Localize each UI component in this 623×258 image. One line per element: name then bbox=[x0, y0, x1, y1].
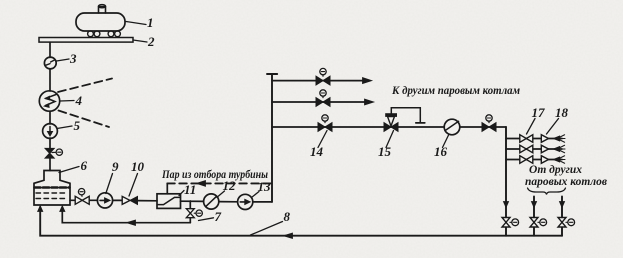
branch A pipe bbox=[272, 80, 369, 82]
control valve 15 bbox=[384, 123, 391, 132]
brace under text bbox=[528, 188, 566, 195]
gauge on outlet valve bbox=[81, 195, 83, 196]
valve before comb bbox=[482, 123, 489, 132]
down arrows bbox=[503, 202, 508, 208]
svg-text:9: 9 bbox=[112, 159, 119, 174]
label 14 leader bbox=[318, 131, 327, 148]
gauge on valve 7 bbox=[194, 212, 196, 214]
heat exchanger 11 bbox=[157, 194, 181, 209]
drain valve 7 bbox=[186, 209, 194, 214]
gauge on valve 14 bbox=[324, 121, 326, 122]
tank car 1 body bbox=[76, 13, 125, 31]
svg-text:4: 4 bbox=[75, 93, 83, 108]
branch B pipe bbox=[272, 101, 371, 103]
svg-text:11: 11 bbox=[184, 182, 196, 197]
right vertical main bbox=[505, 127, 507, 236]
valve above tank 6 bbox=[45, 149, 54, 159]
tank 6 liquid bbox=[35, 186, 70, 189]
valve 15 actuator bbox=[388, 117, 395, 127]
drain stub to valve 7 bbox=[189, 201, 191, 223]
drain return line bbox=[62, 207, 190, 223]
tank car wheels bbox=[88, 31, 94, 37]
comb branch 1 bbox=[506, 138, 562, 140]
svg-text:Пар из отбора турбины: Пар из отбора турбины bbox=[161, 169, 268, 181]
label 17 leader bbox=[527, 119, 536, 135]
pump 9 bbox=[97, 193, 112, 208]
pipe 3 to heater 4 bbox=[49, 69, 51, 91]
tank 6 bbox=[34, 171, 70, 206]
branch A arrow bbox=[363, 78, 372, 84]
pipe pump to check valve bbox=[113, 199, 122, 201]
pipe check valve to exchanger 11 bbox=[138, 200, 158, 202]
branch B arrow bbox=[365, 99, 374, 105]
heater 4 bbox=[39, 91, 59, 111]
branch B gauge bbox=[322, 96, 324, 97]
line 8 flow arrow bbox=[284, 233, 293, 238]
outlet valve bbox=[75, 196, 82, 204]
label 8 leader bbox=[251, 222, 283, 236]
return line 8 bbox=[40, 207, 562, 236]
comb branch 2 bbox=[506, 148, 562, 150]
main steam header bbox=[272, 126, 506, 128]
label 2 leader bbox=[133, 40, 147, 42]
incoming vertical 3 bbox=[561, 197, 563, 236]
svg-text:14: 14 bbox=[310, 144, 324, 159]
steam pipe to exchanger bbox=[166, 183, 168, 193]
platform 2 bbox=[39, 38, 133, 43]
label 4 leader bbox=[60, 100, 74, 103]
svg-text:5: 5 bbox=[74, 118, 81, 133]
gauge on valve bbox=[52, 151, 56, 153]
label 6 leader bbox=[59, 167, 79, 173]
label 7 leader bbox=[199, 218, 214, 221]
meter 5 bbox=[43, 124, 58, 139]
steam arrow bbox=[197, 181, 206, 187]
heater 4 steam dashed rays bbox=[58, 79, 112, 93]
riser top cap bbox=[267, 73, 277, 75]
label 5 leader bbox=[57, 126, 72, 129]
riser bbox=[271, 74, 273, 202]
svg-text:8: 8 bbox=[284, 209, 291, 224]
svg-text:2: 2 bbox=[147, 34, 155, 49]
svg-text:От других: От других bbox=[529, 164, 582, 176]
flow meter 16 bbox=[444, 119, 460, 135]
svg-text:18: 18 bbox=[555, 105, 569, 120]
svg-text:16: 16 bbox=[434, 144, 448, 159]
branch B valve bbox=[316, 98, 323, 107]
pipe platform to meter 3 bbox=[49, 42, 51, 57]
pipe 4 to meter 5 bbox=[49, 111, 51, 124]
incoming vertical 2 bbox=[533, 197, 535, 236]
label 18 leader bbox=[547, 119, 559, 135]
svg-text:3: 3 bbox=[69, 51, 77, 66]
comb valves and check valves bbox=[520, 135, 549, 164]
branch A valve bbox=[316, 76, 323, 85]
valve 14 bbox=[318, 123, 325, 132]
label 9 leader bbox=[106, 174, 113, 194]
pipe 12 to pump 13 bbox=[219, 201, 238, 203]
gauge on valve bbox=[488, 121, 490, 122]
tank outlet pipe bbox=[70, 199, 98, 201]
svg-text:6: 6 bbox=[81, 158, 88, 173]
svg-text:1: 1 bbox=[147, 15, 154, 30]
svg-text:17: 17 bbox=[532, 105, 546, 120]
label 13 leader bbox=[252, 192, 260, 198]
svg-text:7: 7 bbox=[215, 209, 222, 224]
label 3 leader bbox=[57, 59, 70, 61]
tank car 1 dome bbox=[99, 7, 106, 14]
svg-text:15: 15 bbox=[378, 144, 392, 159]
svg-text:К другим паровым котлам: К другим паровым котлам bbox=[391, 85, 520, 97]
check valve 10 bbox=[122, 196, 130, 204]
pipe 5 to valve bbox=[49, 138, 51, 149]
return arrow into tank bbox=[38, 206, 43, 212]
svg-text:10: 10 bbox=[131, 159, 145, 174]
comb branch 3 bbox=[506, 159, 562, 161]
incoming arrows from other boilers bbox=[553, 135, 565, 163]
label 12 leader bbox=[217, 191, 225, 197]
meter 12 bbox=[204, 194, 219, 209]
label 1 leader bbox=[126, 22, 146, 25]
label 16 leader bbox=[443, 135, 449, 148]
label 10 leader bbox=[129, 174, 138, 197]
label 15 leader bbox=[386, 131, 394, 148]
pipe exchanger to meter 12 bbox=[181, 200, 204, 202]
steam dashed line from turbine bbox=[167, 182, 272, 184]
svg-text:13: 13 bbox=[258, 179, 272, 194]
pipe 13 to riser bbox=[253, 201, 272, 203]
svg-text:паровых котлов: паровых котлов bbox=[525, 176, 607, 188]
drain return flow arrow bbox=[127, 220, 136, 225]
label 11 leader bbox=[179, 191, 184, 196]
bottom valves with gauges bbox=[502, 218, 575, 228]
pipe valve to tank 6 bbox=[49, 158, 51, 171]
branch A gauge bbox=[322, 75, 324, 76]
pump 13 bbox=[238, 194, 253, 209]
valve 15 impulse line bbox=[391, 108, 420, 123]
meter 3 bbox=[44, 57, 56, 69]
drain return arrow into tank bbox=[60, 206, 65, 212]
